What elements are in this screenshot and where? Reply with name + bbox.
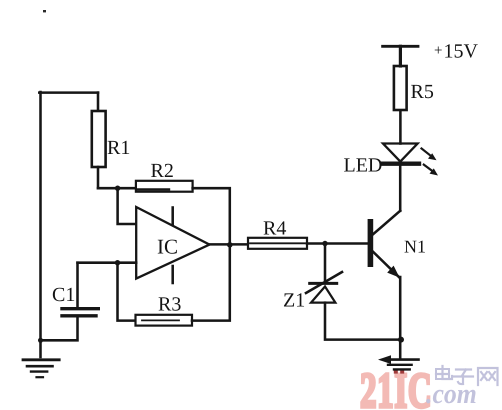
wire inverting input [78,261,137,264]
watermark .com [426,379,477,410]
capacitor C1 [62,309,98,316]
wire node to R2 [98,187,136,190]
wire R1 bottom stub [97,167,100,188]
watermark red i-dots [394,370,404,374]
wire to op-amp top input [118,188,137,224]
wire op-amp output [210,243,249,246]
resistor R3 [136,315,193,326]
watermark dian zi wang [436,366,498,385]
transistor N1 [368,211,401,278]
svg-text:C1: C1 [52,284,75,306]
svg-text:LED: LED [344,155,383,177]
op-amp U1 [136,207,209,283]
svg-text:R5: R5 [411,81,434,103]
junction dot inverting input [115,260,120,265]
svg-text:+: + [434,43,442,59]
wire to R3 left [118,263,136,321]
wire zener branch [324,244,327,282]
wire R1 top stub [97,93,100,112]
svg-text:IC: IC [157,235,178,259]
svg-text:15V: 15V [444,41,479,63]
junction dot output node [227,242,233,248]
svg-text:R1: R1 [107,137,130,159]
junction dot left rail [38,338,43,343]
watermark 21IC [360,362,432,410]
wire R4 to base [307,242,368,245]
LED [382,144,438,176]
resistor R1 [92,111,106,167]
junction dot emitter node [398,337,404,343]
svg-text:Z1: Z1 [283,290,305,312]
wire collector [399,164,402,211]
ground right [378,355,419,369]
svg-text:.com: .com [426,379,477,410]
wire LED to R5 [399,110,402,144]
resistor R5 [394,66,407,110]
svg-text:R3: R3 [158,294,181,316]
power rail +15V [383,46,418,66]
svg-text:N1: N1 [404,237,426,257]
wire left rail [39,92,42,357]
zener Z1 [306,272,342,303]
resistor R4 [248,238,307,249]
wire emitter to ground [399,277,402,358]
svg-text:R4: R4 [263,218,286,240]
wire R2 right to output node [193,188,230,245]
wire C1 bottom to rail [41,318,78,341]
label +15V [434,41,479,63]
junction dot R1/R2 node [115,186,120,191]
svg-text:R2: R2 [151,160,174,182]
junction dot zener tap [322,241,327,246]
resistor R2 [136,181,193,192]
ground left [23,360,59,377]
wire R3 right to output node [192,245,230,321]
wire C1 top riser [76,263,79,307]
wire top horizontal [39,91,98,94]
wire Z1 to ground rail [325,303,401,340]
